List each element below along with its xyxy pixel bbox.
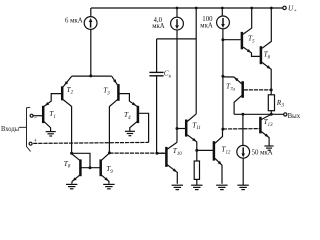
ground under T13 (264, 146, 273, 150)
wire top supply rail (91, 7, 283, 9)
svg-text:+: + (33, 138, 37, 145)
wire T5 base (223, 39, 241, 41)
input bracket and label (1, 107, 31, 151)
current source I3 100uA (200, 8, 229, 29)
terminal input minus (30, 114, 37, 122)
node T3 collector / T9 collector (108, 151, 111, 154)
transistor T7a (npn, mirrored, emitter up) (223, 77, 271, 114)
wire I2 to T11 base and T10 collector (176, 30, 178, 142)
svg-text:R3: R3 (276, 98, 284, 109)
transistor T8 (npn mirror, mirrored) (64, 154, 81, 184)
svg-text:T11: T11 (192, 120, 201, 131)
svg-text:50 мкА: 50 мкА (252, 150, 273, 157)
terminal U+ supply (283, 3, 297, 14)
svg-text:T13: T13 (264, 117, 274, 128)
ground under T4 (125, 131, 135, 135)
transistor T10 (npn) (157, 142, 182, 184)
svg-text:T6: T6 (264, 50, 271, 61)
wire compensation top (157, 38, 197, 40)
node T12 collector / T13 base (221, 128, 224, 131)
node output / R3 bottom (270, 113, 273, 116)
node rail-T6 (270, 7, 273, 10)
node T2 collector / T8 collector (70, 152, 73, 155)
transistor T6 (npn) (261, 8, 271, 90)
ground under T8 (66, 184, 77, 188)
svg-text:−: − (33, 115, 37, 122)
transistor T5 (npn) (242, 8, 260, 56)
svg-text:T1: T1 (49, 109, 56, 120)
node Ck bottom / T10 base (156, 152, 159, 155)
wire emitter rail T2-T3 (72, 75, 112, 77)
svg-text:Cк: Cк (164, 69, 172, 80)
current source I4 50uA (237, 114, 273, 185)
ground under I4 (237, 185, 248, 189)
svg-text:T8: T8 (64, 159, 71, 170)
terminal input plus (29, 138, 37, 146)
svg-text:T2: T2 (67, 85, 74, 96)
node output / I4 (241, 113, 244, 116)
svg-text:6 мкА: 6 мкА (65, 18, 83, 25)
node rail-I3 (221, 7, 224, 10)
wire mirror base feed (72, 153, 90, 167)
terminal output Vyh (284, 113, 301, 120)
node mirror bases (89, 166, 92, 169)
transistor T1 (pnp input follower) (33, 94, 61, 132)
svg-text:T3: T3 (103, 86, 110, 97)
svg-text:T9: T9 (106, 164, 113, 175)
ground under T1 (46, 132, 56, 136)
svg-text:T5: T5 (248, 34, 255, 45)
svg-text:Вых: Вых (288, 113, 300, 120)
svg-text:T4: T4 (124, 110, 131, 121)
resistor R (T11 emitter load) (194, 161, 199, 185)
ground under resistor (191, 185, 202, 189)
transistor T13 (npn output) (260, 115, 273, 146)
current source I1 6uA (65, 8, 97, 29)
svg-text:мкА: мкА (152, 23, 165, 30)
wire T9 collector to T10 base (109, 152, 165, 154)
current source I2 4.0uA (152, 8, 183, 30)
wire I1 to diff pair emitters (90, 29, 92, 76)
wire base rail T8-T9 (81, 167, 99, 169)
transistor T3 (pnp, mirrored) (103, 76, 118, 153)
transistor T9 (npn mirror) (101, 153, 114, 183)
svg-text:мкА: мкА (200, 22, 213, 29)
node diff emitters (89, 74, 92, 77)
svg-text:U+: U+ (288, 3, 297, 14)
node rail-T5 (250, 7, 253, 10)
node T6 emitter / R3 top (270, 88, 273, 91)
svg-text:T10: T10 (173, 146, 183, 157)
ground under T10 (172, 185, 183, 189)
node T7a emitter (221, 75, 224, 78)
wire output line (234, 113, 284, 115)
ground under T9 (103, 184, 114, 188)
transistor T11 (npn) (177, 114, 201, 161)
wire rail to T11 collector (195, 8, 197, 114)
node T5 base (221, 38, 224, 41)
wire I3 down chain (222, 29, 224, 129)
svg-text:T12: T12 (221, 145, 231, 156)
node T11 emitter / T12 base (195, 149, 198, 152)
transistor T2 (pnp) (62, 76, 73, 153)
node rail-T11 (195, 7, 198, 10)
transistor T12 (npn) (197, 129, 231, 184)
ground under T12 (216, 185, 227, 189)
wire T13 base (223, 128, 260, 130)
node rail-I2 (176, 7, 179, 10)
resistor R3 (268, 90, 284, 114)
capacitor Ck (149, 39, 171, 153)
node T11 base (176, 127, 179, 130)
transistor T4 (pnp input follower, mirrored) (120, 94, 149, 143)
svg-text:T7a: T7a (226, 82, 236, 93)
svg-text:Входы: Входы (1, 126, 19, 133)
wire inverting input (33, 142, 148, 143)
